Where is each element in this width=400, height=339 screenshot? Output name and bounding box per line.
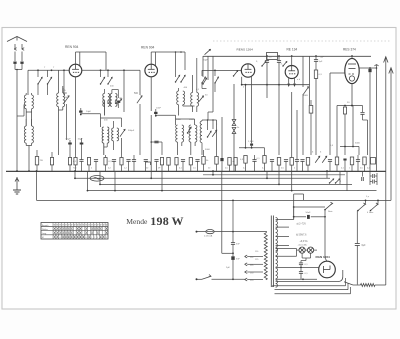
tube V5 RES 374 label (343, 48, 356, 52)
wire (245, 84, 247, 148)
svg-text:2µF: 2µF (226, 267, 230, 269)
wire (59, 107, 63, 155)
transformer secondary winding c (276, 240, 278, 251)
capacitor C38 (299, 269, 308, 280)
station table (41, 223, 108, 240)
svg-text:1µF: 1µF (319, 61, 323, 63)
resistor R16 (363, 157, 366, 171)
capacitor C10 (126, 160, 130, 171)
wire heater loop (276, 270, 343, 282)
switch S13 (261, 61, 266, 66)
trimmer cap C1 (13, 62, 16, 64)
capacitor C30 (295, 110, 299, 171)
choke hourglass (232, 84, 236, 171)
coil L10 (200, 120, 202, 155)
capacitor C40 6uF (355, 211, 366, 285)
wire (296, 249, 298, 257)
wire (155, 109, 176, 117)
wire (247, 257, 263, 280)
dial lamp LP2 (308, 247, 314, 253)
capacitor C33 (362, 177, 364, 181)
capacitor C8 (94, 160, 98, 171)
wire (346, 171, 348, 191)
svg-text:4MΩ: 4MΩ (303, 95, 308, 97)
label (86, 111, 92, 113)
wire (340, 146, 359, 155)
svg-text:6µF: 6µF (362, 245, 367, 247)
switch S5 (175, 52, 180, 83)
capacitor C24 (356, 155, 360, 171)
resistor R14 (335, 150, 338, 171)
wire (0, 0, 1, 1)
trimmer CT1 (117, 99, 121, 104)
svg-text:+6,6 5A: +6,6 5A (300, 240, 308, 243)
resistor R22 (240, 156, 247, 172)
label (355, 143, 361, 145)
capacitor C15 (181, 160, 185, 171)
switch S17 mains (202, 275, 211, 280)
fuse F1 (204, 230, 214, 238)
faint erased text row (213, 40, 391, 42)
tap fork 125 (245, 263, 255, 267)
capacitor C43 (300, 160, 304, 171)
title Mende (126, 217, 148, 226)
switch S15 (329, 179, 334, 184)
svg-text:b) 596/7,6: b) 596/7,6 (296, 234, 307, 236)
svg-text:5000: 5000 (205, 149, 211, 151)
switch S10c (214, 70, 218, 92)
coil L3a (57, 93, 59, 107)
wire (124, 70, 140, 95)
wire (63, 70, 65, 95)
switch S16 (334, 178, 340, 183)
wire tap d2 (276, 266, 297, 268)
wire antenna down (16, 70, 18, 172)
wire grid V3 (251, 82, 253, 143)
label (104, 86, 114, 122)
wire tap c1 (276, 248, 297, 250)
wire H-link2 (176, 106, 195, 125)
resistor R17 (371, 158, 376, 165)
coil L2a (24, 119, 26, 143)
label tap a (297, 224, 307, 226)
resistor R21 (234, 158, 237, 172)
svg-text:4 Netz: 4 Netz (367, 211, 373, 214)
resistor R19 (215, 150, 218, 171)
wire (337, 105, 363, 107)
pins V3 (242, 77, 252, 85)
svg-text:500: 500 (134, 92, 139, 95)
svg-text:RE 134: RE 134 (287, 48, 298, 52)
transformer secondary winding a (276, 218, 278, 229)
wire (370, 171, 377, 185)
wire (161, 171, 163, 192)
label (226, 267, 230, 269)
resistor R24 (277, 158, 280, 172)
resistor R26 zigzag (361, 284, 376, 287)
capacitor C28 (270, 160, 274, 171)
wire return 2 (275, 283, 349, 290)
wire (329, 110, 331, 155)
label (146, 168, 197, 170)
tube V2 REN 904 label (141, 46, 155, 50)
trimmer cap C2 (20, 62, 23, 64)
rectifier V6 RGN 1064 label (316, 255, 331, 259)
wire (264, 148, 266, 156)
wire tap a2 (276, 226, 289, 228)
wire (266, 171, 268, 179)
dial lamp LP1 (299, 247, 305, 253)
coil L5d (117, 128, 119, 141)
switch S10b (201, 70, 206, 88)
resistor R29 (306, 158, 309, 172)
coil L6b (183, 91, 185, 105)
wire (324, 210, 326, 244)
wire (216, 120, 218, 150)
transformer secondary winding f (276, 268, 278, 279)
capacitor C25 blob (220, 117, 223, 171)
coil L8a (189, 125, 191, 142)
label (44, 67, 55, 69)
capacitor C35 5nF blob (231, 253, 240, 279)
svg-text:Netz: Netz (328, 210, 333, 213)
label (196, 89, 208, 97)
wire (0, 0, 1, 1)
resistor R5 (87, 158, 90, 172)
tube V5 RES 374 (345, 58, 359, 83)
switch S7 (187, 127, 191, 134)
resistor R13 (309, 100, 313, 155)
tube V3 RENS 1264 label (237, 48, 254, 52)
switch S1 (37, 70, 42, 95)
wire rect top (325, 244, 327, 261)
wire (26, 112, 31, 126)
wire anode V1 (82, 69, 140, 71)
wire (363, 120, 368, 155)
svg-text:1µF: 1µF (320, 57, 324, 59)
wire (356, 210, 358, 213)
switch S11 (207, 120, 211, 138)
capacitor C7 (79, 155, 83, 171)
wire (385, 66, 387, 171)
capacitor C18 (277, 56, 281, 84)
tap fork 150 (245, 271, 255, 275)
label (64, 97, 68, 99)
wire (36, 170, 38, 200)
svg-text:50µF: 50µF (66, 139, 72, 141)
wire (0, 0, 1, 1)
wire (362, 171, 364, 177)
svg-text:REN 904: REN 904 (65, 45, 79, 49)
capacitor C17 (265, 56, 269, 62)
wire (26, 143, 31, 145)
svg-text:14pF: 14pF (86, 111, 92, 113)
wire return 3 (275, 287, 351, 294)
wire (28, 69, 69, 71)
wire H-link (101, 114, 122, 127)
ground rail (6, 170, 386, 172)
label (208, 168, 266, 170)
bus rail 3 (100, 183, 352, 185)
wire (293, 217, 295, 220)
wire (66, 104, 68, 140)
coil L4a (103, 89, 105, 106)
label (297, 79, 301, 81)
wire (26, 109, 31, 112)
svg-text:500: 500 (63, 92, 68, 95)
wire (326, 170, 328, 178)
variable capacitor CV1 (63, 92, 69, 103)
tube V1 REN 904 (69, 64, 82, 77)
title 198 W (150, 214, 183, 228)
rectifier V6 RGN 1064 (319, 261, 336, 278)
wire (0, 0, 1, 1)
tap fork 220 (245, 278, 255, 282)
wire (15, 64, 22, 70)
wire (291, 56, 293, 66)
capacitor C21 1uF (314, 56, 323, 70)
wire (0, 0, 1, 1)
wire (297, 267, 319, 269)
wire (114, 171, 116, 192)
label (73, 168, 128, 170)
capacitor C20 blob (368, 69, 371, 171)
label (243, 87, 245, 89)
wire tap mid (276, 255, 297, 257)
wire (293, 194, 295, 220)
capacitor C9 (112, 160, 116, 171)
wire tap e2 (276, 278, 317, 280)
tube V1 REN 904 label (65, 45, 79, 49)
wire (117, 90, 119, 99)
wire (0, 0, 1, 1)
potentiometer arrow P1 (303, 87, 309, 97)
svg-text:REN 904: REN 904 (141, 46, 155, 50)
wire (297, 249, 318, 251)
resistor R6 (104, 155, 112, 171)
svg-text:500pF: 500pF (128, 130, 135, 132)
coil L7b (182, 125, 184, 142)
coil L6a (177, 88, 179, 105)
wire (222, 252, 234, 254)
wire (87, 171, 89, 192)
switch S10 (233, 70, 238, 76)
svg-text:3000: 3000 (189, 119, 195, 121)
wire (179, 105, 183, 116)
wire (385, 171, 387, 285)
capacitor C36 blob (306, 212, 312, 219)
svg-text:Wellen: Wellen (42, 229, 48, 231)
label (330, 102, 350, 147)
capacitor C42 (132, 155, 136, 171)
label (62, 90, 122, 100)
svg-text:RES 374: RES 374 (343, 48, 356, 52)
resistor R11 (189, 158, 192, 172)
antenna terminal forks (14, 44, 24, 50)
wire (239, 147, 265, 149)
ground symbol (13, 170, 21, 194)
resistor R23 (263, 156, 266, 172)
capacitor C27 (252, 155, 260, 171)
capacitor C34 5nF (231, 232, 241, 254)
svg-text:50nF: 50nF (306, 212, 312, 214)
svg-text:(1): (1) (119, 98, 122, 100)
coil L2b (32, 119, 34, 143)
capacitor C16 (195, 160, 199, 171)
svg-text:10nF: 10nF (156, 108, 162, 110)
wire mains switch (196, 278, 203, 280)
coil L7a (176, 125, 178, 142)
wire (15, 52, 22, 62)
resistor R12 (314, 70, 322, 155)
coil L9a (191, 75, 193, 106)
svg-text:Bereich: Bereich (42, 224, 48, 227)
wire (212, 278, 245, 280)
wire (0, 0, 1, 1)
wire (151, 51, 185, 70)
wire (207, 56, 209, 80)
pins V4 (288, 78, 296, 86)
wire (291, 171, 293, 192)
wire cathode V5 (351, 84, 353, 107)
capacitor C23 blob (343, 159, 346, 172)
switch S20 (367, 203, 378, 214)
resistor R2 (50, 152, 53, 171)
label (205, 124, 218, 151)
variable resistor P4 (212, 120, 217, 137)
wire (309, 56, 311, 105)
wire (75, 110, 77, 156)
switch S19 (357, 203, 365, 211)
label tap b (296, 234, 307, 236)
label (256, 61, 283, 66)
switch S3 (100, 70, 105, 84)
svg-text:Mende: Mende (126, 217, 148, 226)
svg-text:Lang: Lang (42, 233, 46, 235)
wire (150, 141, 162, 155)
resistor R15 (350, 157, 353, 171)
capacitor C11 (154, 112, 157, 114)
wire (293, 207, 295, 217)
variable capacitor CV3 (134, 92, 142, 103)
capacitor C4 50uF (66, 139, 72, 156)
wire (301, 258, 306, 261)
label (128, 130, 135, 132)
wire (150, 171, 152, 179)
mains lead (196, 231, 206, 233)
speaker plug arrow 2 (389, 68, 393, 77)
switch S6 (180, 75, 185, 82)
svg-text:+6,6 0,6A: +6,6 0,6A (298, 244, 308, 247)
capacitor C31 (370, 174, 377, 178)
transformer secondary winding g (276, 280, 278, 287)
tube V3 RENS 1264 (241, 64, 254, 77)
capacitor C19b blob (248, 141, 254, 148)
bus rail 6 (203, 174, 345, 176)
coil L4d (115, 94, 117, 107)
wire (104, 143, 107, 155)
label (341, 168, 371, 170)
wire (150, 115, 152, 171)
wire (390, 77, 392, 200)
coil L4c (110, 90, 118, 107)
potentiometer arrow P2 (315, 156, 320, 163)
wire anode V3 (241, 84, 310, 86)
coil L5b (107, 127, 109, 143)
capacitor C14 (144, 160, 148, 162)
potentiometer arrow P3 (322, 156, 327, 163)
resistor R10 (175, 158, 178, 172)
wire (302, 253, 311, 258)
capacitor C29 (284, 160, 288, 171)
bus rail 5 (37, 199, 392, 201)
coil L5c (112, 121, 114, 150)
wire tap b1 (276, 236, 289, 238)
wire (289, 85, 295, 86)
coil L9b (197, 58, 199, 106)
resistor R3 (68, 155, 76, 171)
resistor R27 (343, 107, 346, 147)
antenna (7, 37, 27, 42)
transformer secondary winding d (276, 249, 278, 256)
wire (80, 108, 101, 115)
wire (139, 104, 141, 155)
bus rail 4 (88, 190, 377, 192)
wire (178, 142, 196, 155)
capacitor C22 (328, 160, 332, 171)
wire (278, 171, 280, 185)
switch S2 (47, 70, 52, 95)
bus rail 2 (75, 177, 330, 179)
svg-text:20pF: 20pF (203, 60, 209, 62)
coil L3b (63, 88, 65, 107)
capacitor C13 (154, 160, 158, 171)
switch S9 20pF (203, 49, 210, 61)
top rail node B+ (203, 55, 371, 57)
wire (293, 216, 326, 218)
IF transformer box T1 (267, 53, 278, 60)
wire (351, 56, 353, 58)
capacitor C32 (370, 180, 377, 184)
svg-text:J: J (340, 181, 341, 183)
tube V4 RE 134 label (287, 48, 298, 52)
wire (352, 106, 354, 147)
wire (214, 231, 267, 233)
variable capacitor CV4 (198, 96, 203, 102)
svg-text:1,5nF: 1,5nF (248, 141, 254, 143)
label (237, 126, 240, 129)
wire anode V5 (359, 67, 376, 69)
svg-text:3000: 3000 (176, 119, 182, 121)
svg-text:198 W: 198 W (150, 214, 183, 228)
wire (121, 138, 123, 155)
wire return 1 (272, 278, 345, 287)
resistor R25 (290, 92, 293, 171)
pickup connector J1 (90, 176, 104, 182)
wire (293, 206, 325, 208)
wire (362, 106, 364, 113)
transformer primary winding (264, 232, 267, 280)
resistor R9 (160, 158, 163, 172)
capacitor C6 (79, 111, 82, 113)
tap fork 110 (245, 255, 254, 259)
svg-text:5nF: 5nF (236, 244, 240, 246)
wire (99, 171, 101, 185)
wire heater drop (221, 171, 223, 253)
resistor R18 (202, 150, 209, 171)
wire tap a1 (276, 219, 294, 221)
label (176, 87, 195, 121)
